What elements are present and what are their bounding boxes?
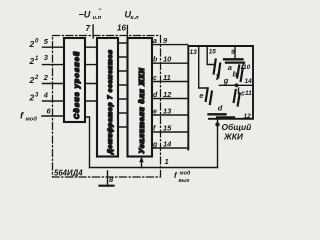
- svg-text:1: 1: [165, 157, 169, 166]
- label -Uи.п: [79, 7, 103, 21]
- segment a capacitor plates: [224, 58, 243, 60]
- svg-text:2: 2: [34, 75, 39, 81]
- block decoder (Дешифратор 7 сегментов): [97, 38, 118, 157]
- svg-text:13: 13: [163, 107, 172, 116]
- svg-text:1: 1: [35, 56, 39, 62]
- svg-text:14: 14: [163, 140, 172, 149]
- svg-text:к.л: к.л: [131, 15, 140, 21]
- svg-text:5: 5: [44, 37, 49, 46]
- segment e capacitor plates: [206, 88, 208, 101]
- f_mod shifted wire from level-shifter to bottom bus: [85, 117, 90, 168]
- svg-text:и.п: и.п: [93, 15, 102, 21]
- svg-text:2: 2: [43, 73, 49, 82]
- label 2^1: [29, 56, 40, 66]
- svg-text:9: 9: [163, 36, 168, 45]
- input wire 2^1 pin 3: [43, 64, 65, 66]
- svg-text:10: 10: [243, 64, 251, 71]
- svg-text:a: a: [228, 63, 232, 72]
- lead pin 9 to segment a: [234, 46, 236, 59]
- label Общий ЖКИ: [222, 122, 252, 142]
- svg-text:ЖКИ: ЖКИ: [223, 132, 244, 142]
- svg-text:2: 2: [29, 39, 35, 49]
- supply pin 16 wire: [126, 26, 128, 39]
- lead segment c: [238, 88, 240, 94]
- IC dash-dot outline 564ИД4: [53, 36, 161, 178]
- segment c capacitor plates: [234, 90, 236, 102]
- svg-text:−: −: [98, 7, 102, 13]
- svg-text:6: 6: [47, 107, 52, 116]
- wire up to LCD common node: [217, 119, 219, 168]
- svg-text:13: 13: [190, 49, 198, 56]
- svg-text:564ИД4: 564ИД4: [54, 169, 83, 178]
- svg-text:b: b: [153, 57, 158, 64]
- svg-text:f: f: [216, 71, 221, 83]
- svg-text:11: 11: [163, 73, 171, 82]
- svg-text:−U: −U: [79, 10, 91, 20]
- label Uк.л: [125, 10, 140, 22]
- label f_vyh_mod: [174, 171, 191, 185]
- svg-text:g: g: [223, 76, 229, 85]
- svg-text:16: 16: [117, 24, 126, 33]
- block level-shifter (Сдвиг уровней): [64, 38, 85, 122]
- segment g line pin 14: [220, 84, 253, 86]
- output wire b pin 10: [152, 62, 188, 64]
- block LCD amplifiers (Усилители для ЖКИ): [128, 38, 153, 157]
- svg-text:мод: мод: [26, 117, 38, 123]
- output wire e pin 13: [152, 114, 188, 116]
- svg-text:c: c: [241, 89, 245, 98]
- label 2^2: [29, 75, 40, 85]
- svg-text:Сдвиг уровней: Сдвиг уровней: [72, 51, 81, 119]
- svg-text:Дешифратор 7 сегментов: Дешифратор 7 сегментов: [107, 49, 114, 155]
- wires decoder to amplifiers: [118, 43, 128, 127]
- supply pin 7 wire: [92, 25, 94, 38]
- svg-text:f: f: [20, 111, 24, 122]
- lead pin 15 to segment f: [207, 46, 214, 65]
- wires level-shifter to decoder: [85, 47, 97, 101]
- svg-text:2: 2: [29, 93, 35, 103]
- arrow into amplifiers bottom: [141, 159, 143, 168]
- output wire c pin 11: [152, 81, 188, 83]
- svg-text:f: f: [174, 171, 178, 180]
- svg-text:мод: мод: [180, 171, 191, 177]
- node common dot: [215, 122, 219, 126]
- input wire 2^2 pin 2: [43, 83, 65, 85]
- output wire d pin 12: [152, 98, 188, 100]
- svg-text:2: 2: [29, 75, 35, 85]
- svg-text:e: e: [153, 109, 157, 116]
- output wire f pin 15: [152, 131, 188, 133]
- label 2^3: [29, 92, 40, 102]
- svg-text:12: 12: [244, 113, 252, 120]
- svg-text:14: 14: [245, 78, 253, 85]
- svg-text:15: 15: [209, 49, 217, 56]
- svg-text:e: e: [199, 91, 203, 100]
- segment f capacitor plates: [214, 60, 216, 74]
- label f_mod: [20, 111, 37, 123]
- input wire 2^3 pin 4: [43, 100, 65, 102]
- svg-text:b: b: [233, 70, 238, 79]
- svg-text:d: d: [218, 104, 223, 113]
- svg-text:вых: вых: [179, 178, 191, 184]
- input wire 2^0 pin 5: [43, 46, 65, 48]
- svg-text:3: 3: [35, 92, 39, 98]
- input wire f_mod pin 6: [42, 115, 64, 117]
- segment d capacitor plates: [209, 113, 226, 115]
- lead pin 13 to segment e: [199, 46, 207, 88]
- segment b capacitor plates: [237, 66, 239, 78]
- LCD display box: [188, 46, 253, 150]
- svg-text:4: 4: [43, 91, 49, 100]
- svg-text:7: 7: [86, 24, 91, 33]
- pin 8 ground stub: [107, 171, 109, 185]
- svg-text:3: 3: [44, 53, 49, 62]
- svg-text:12: 12: [163, 90, 172, 99]
- svg-text:11: 11: [245, 90, 252, 97]
- svg-text:0: 0: [35, 39, 39, 45]
- svg-text:10: 10: [163, 55, 172, 64]
- output wire g pin 14: [152, 147, 188, 149]
- svg-text:g: g: [152, 142, 158, 149]
- svg-text:a: a: [153, 38, 157, 45]
- svg-text:d: d: [153, 92, 158, 99]
- svg-text:Общий: Общий: [222, 122, 252, 132]
- node g: [235, 83, 239, 87]
- label 2^0: [29, 39, 40, 49]
- lead segment b to pin 10: [242, 64, 244, 69]
- svg-text:c: c: [153, 75, 157, 82]
- svg-text:2: 2: [29, 56, 35, 66]
- bottom bus wire to LCD common: [90, 167, 218, 169]
- svg-text:9: 9: [231, 49, 235, 56]
- svg-text:15: 15: [163, 124, 172, 133]
- output wire a pin 9: [152, 44, 188, 46]
- svg-text:Усилители для ЖКИ: Усилители для ЖКИ: [138, 67, 146, 153]
- svg-text:8: 8: [109, 175, 114, 184]
